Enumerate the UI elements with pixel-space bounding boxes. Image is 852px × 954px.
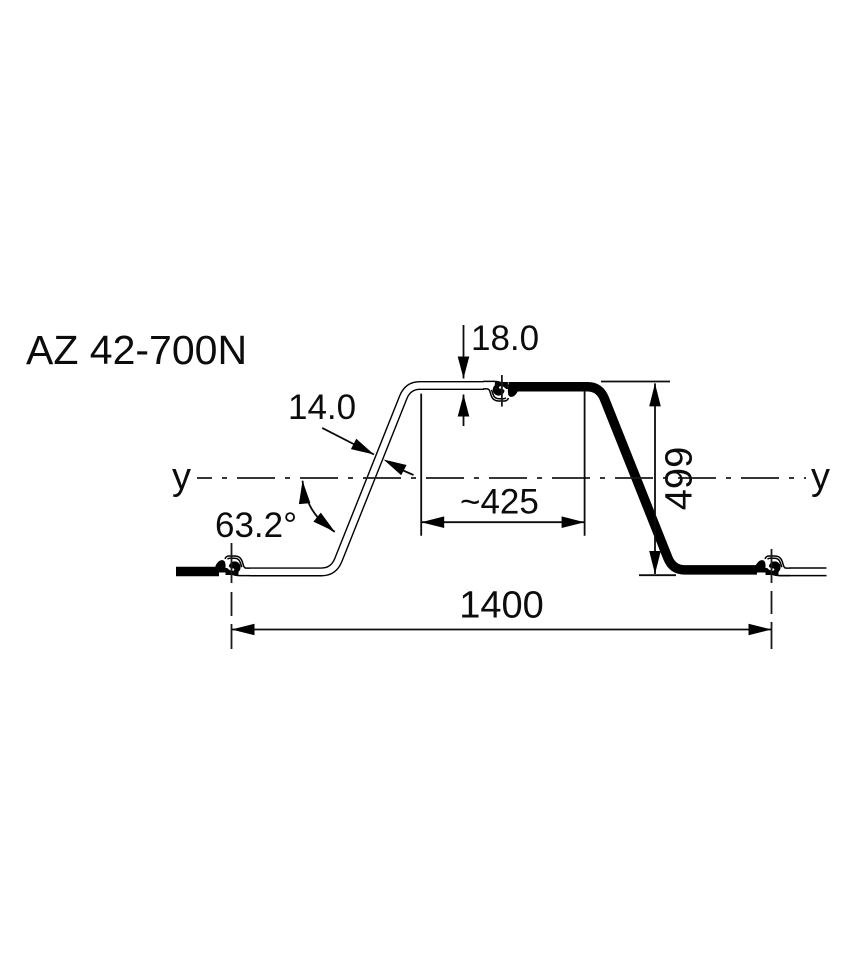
svg-text:y: y xyxy=(811,456,830,498)
arc arrowhead at centre line xyxy=(299,481,311,504)
dimension line ~425 xyxy=(421,521,584,523)
left sheet pile outline interior (white) xyxy=(250,386,484,572)
angle dimension arc xyxy=(303,481,335,532)
extension line bottom of 499 xyxy=(639,574,676,576)
svg-text:14.0: 14.0 xyxy=(288,388,356,427)
arrowhead onto web left face xyxy=(351,439,374,455)
arrowhead up to flange bottom xyxy=(458,395,470,417)
svg-text:63.2°: 63.2° xyxy=(215,506,297,545)
svg-text:y: y xyxy=(172,456,191,498)
extension line top of 499 xyxy=(601,381,670,383)
leader tail beyond web xyxy=(402,470,414,475)
neighbour pile flange outline bottom-right lower line xyxy=(779,575,826,577)
neutral axis centre line y-y xyxy=(197,477,806,479)
interlock centre mark / extension line bottom-left xyxy=(231,543,233,649)
svg-text:1400: 1400 xyxy=(459,585,544,627)
right sheet pile profile (top flange, web, bottom flange, thick section) xyxy=(509,387,758,570)
left sheet pile profile outline (thin section, bottom flange, web, top flange) xyxy=(250,386,484,572)
arrowhead down to flange top xyxy=(458,357,470,379)
dimension line 1400 xyxy=(232,629,772,631)
arrowhead down 499 xyxy=(649,551,661,574)
extension line left of ~425 xyxy=(420,394,422,536)
arc arrowhead at web xyxy=(313,513,334,532)
neighbour pile flange stub bottom-left (thick) xyxy=(176,567,219,577)
interlock bottom-left xyxy=(216,556,251,576)
svg-text:AZ 42-700N: AZ 42-700N xyxy=(26,327,247,373)
arrowhead right ~425 xyxy=(562,516,585,528)
neighbour pile flange outline bottom-right upper line xyxy=(790,567,827,569)
extension line right of ~425 xyxy=(584,390,586,536)
arrowhead up 499 xyxy=(649,383,661,406)
interlock top centre xyxy=(483,381,518,401)
arrowhead left 1400 xyxy=(232,624,255,636)
dimension line below flange xyxy=(463,395,465,427)
arrowhead onto web right face xyxy=(384,460,407,476)
interlock centre mark top xyxy=(501,375,503,407)
dimension line 499 vertical xyxy=(654,383,656,574)
leader line from 14.0 xyxy=(322,428,374,455)
svg-text:499: 499 xyxy=(659,447,701,510)
dimension line above flange xyxy=(463,325,465,379)
interlock bottom-right xyxy=(756,556,791,576)
svg-text:~425: ~425 xyxy=(460,483,539,522)
arrowhead right 1400 xyxy=(749,624,772,636)
arrowhead left ~425 xyxy=(421,516,444,528)
interlock centre mark / extension line bottom-right xyxy=(771,549,773,649)
svg-text:18.0: 18.0 xyxy=(471,319,539,358)
